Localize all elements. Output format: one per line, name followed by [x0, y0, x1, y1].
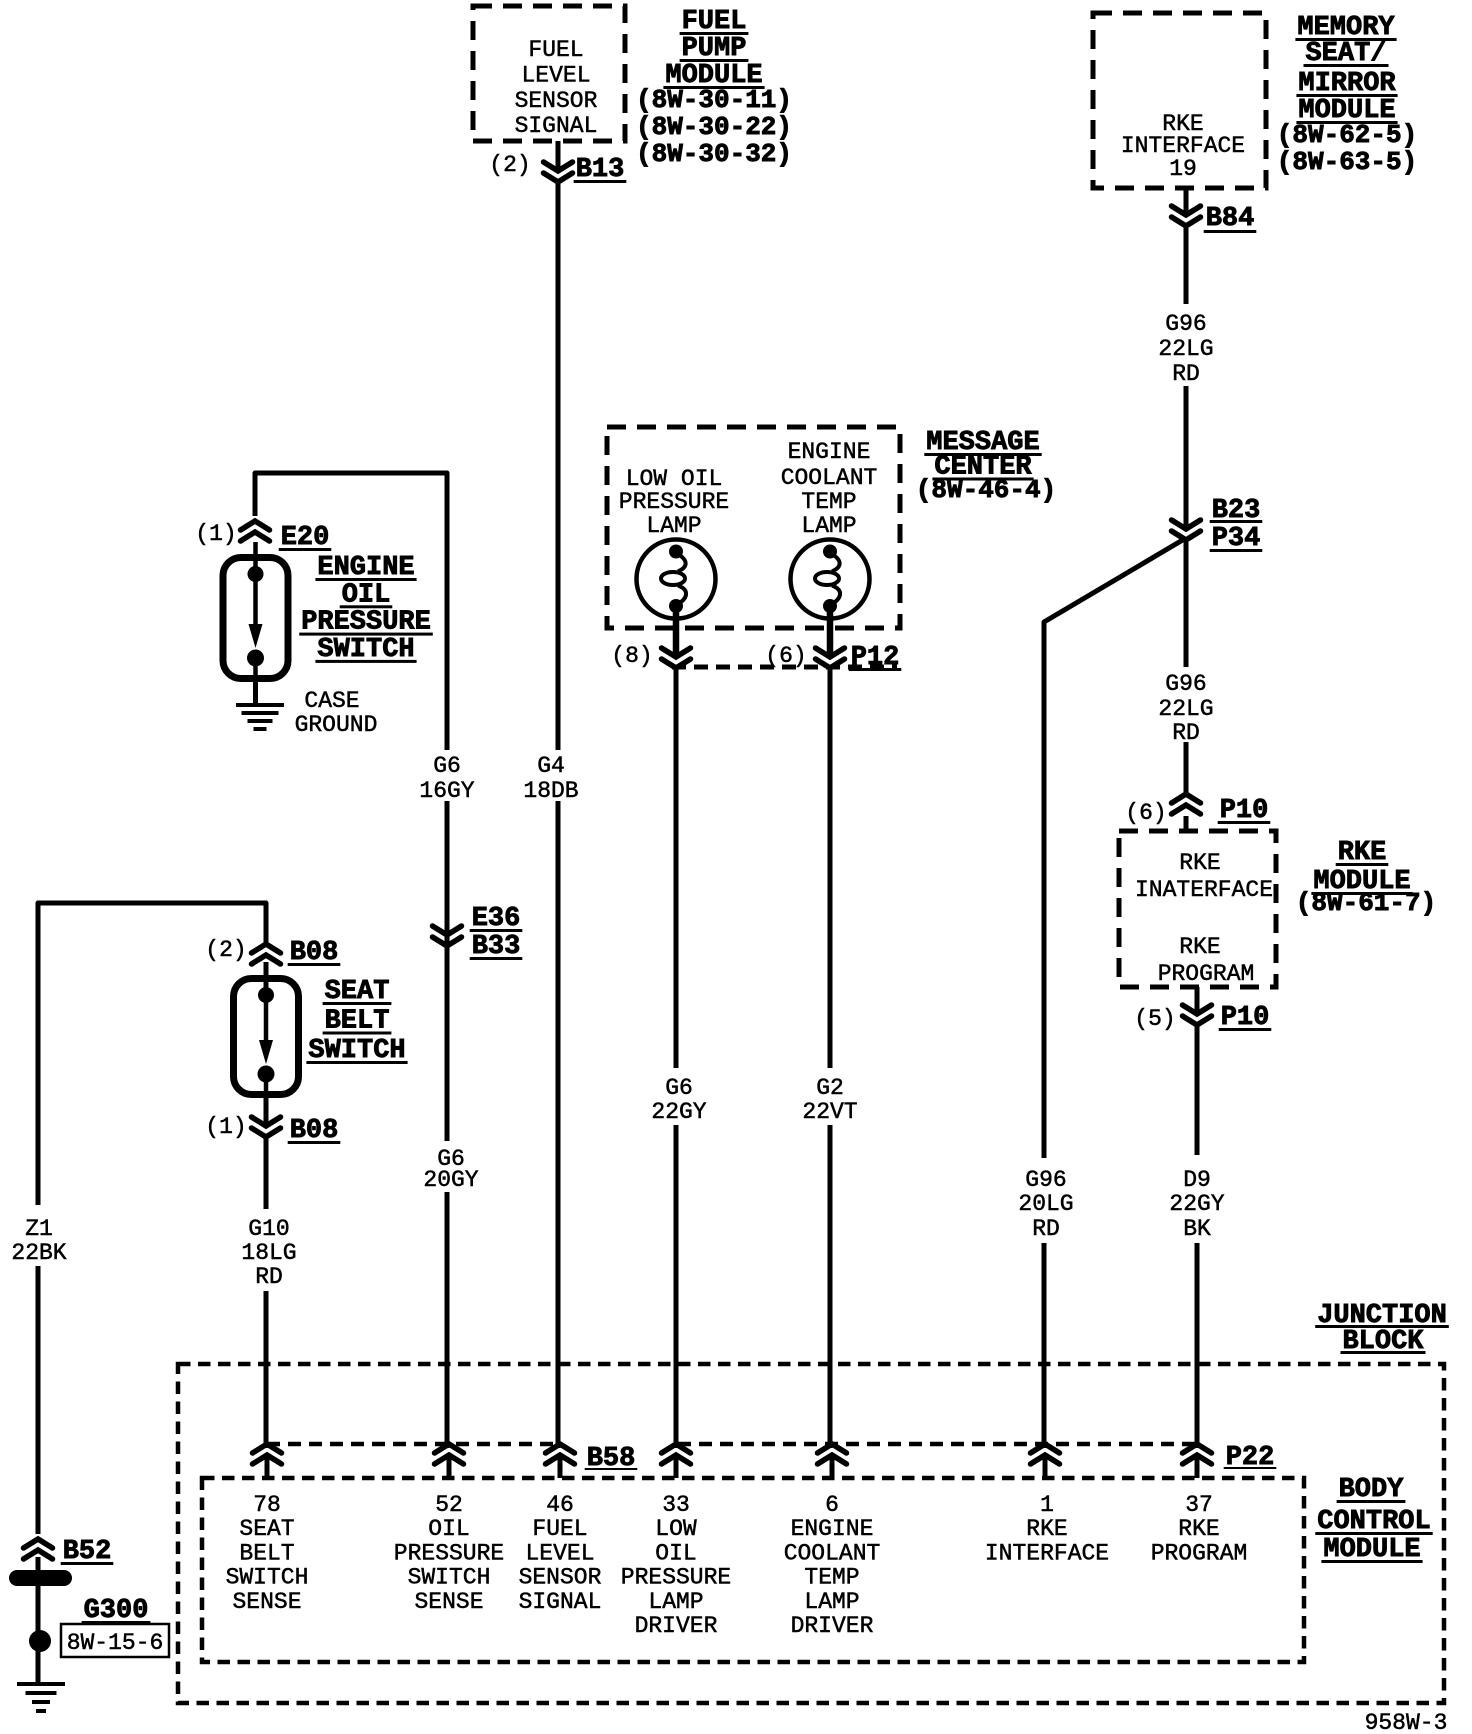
wire G4 18DB [556, 182, 561, 1448]
svg-text:RD: RD [255, 1264, 283, 1290]
svg-text:(2): (2) [489, 152, 530, 178]
label G4 18DB [523, 753, 578, 804]
wire G10 lower [264, 1291, 269, 1448]
svg-text:G6: G6 [665, 1075, 693, 1101]
label pin 33 LOW OIL PRESSURE LAMP DRIVER [621, 1492, 731, 1639]
svg-text:LAMP: LAMP [648, 1589, 703, 1615]
svg-text:22BK: 22BK [11, 1240, 66, 1266]
svg-text:SWITCH: SWITCH [226, 1565, 309, 1591]
label MESSAGE CENTER [916, 428, 1056, 505]
junction connector pin 6 [818, 1444, 847, 1478]
junction connector pin 37 [1183, 1444, 1212, 1478]
label G6 16GY [419, 753, 474, 804]
label RKE MODULE (8W-61-7) [1296, 838, 1436, 918]
connector B84 [1172, 188, 1257, 234]
label G96 22LG RD upper [1158, 311, 1213, 387]
svg-text:COOLANT: COOLANT [781, 465, 878, 491]
svg-text:ENGINE: ENGINE [788, 439, 871, 465]
svg-text:LAMP: LAMP [804, 1589, 859, 1615]
label FUEL PUMP MODULE [636, 7, 792, 169]
wire G96 22LG RD lower [1184, 538, 1189, 794]
svg-text:RD: RD [1032, 1216, 1060, 1242]
junction connector pin 78 [253, 1444, 282, 1478]
svg-text:G2: G2 [816, 1075, 844, 1101]
svg-text:SENSOR: SENSOR [515, 88, 598, 114]
label D9 22GY BK [1169, 1167, 1224, 1242]
connector B13 [489, 141, 626, 185]
svg-text:DRIVER: DRIVER [635, 1613, 718, 1639]
svg-text:BK: BK [1183, 1216, 1211, 1242]
svg-text:SENSE: SENSE [414, 1589, 483, 1615]
svg-text:CASE: CASE [304, 688, 359, 714]
svg-text:16GY: 16GY [419, 778, 474, 804]
svg-text:COOLANT: COOLANT [784, 1540, 881, 1566]
svg-text:D9: D9 [1183, 1167, 1211, 1193]
svg-text:FUEL: FUEL [532, 1516, 587, 1542]
svg-text:RKE: RKE [1179, 934, 1220, 960]
svg-text:78: 78 [253, 1492, 281, 1518]
svg-text:TEMP: TEMP [804, 1565, 859, 1591]
svg-text:OIL: OIL [428, 1516, 469, 1542]
svg-text:(1): (1) [205, 1114, 246, 1140]
svg-text:(5): (5) [1134, 1006, 1175, 1032]
svg-text:G96: G96 [1165, 311, 1206, 337]
label ENGINE OIL PRESSURE SWITCH [299, 553, 433, 665]
lamp socket dashed line [672, 665, 897, 670]
body control module box [202, 1478, 1304, 1662]
svg-text:G96: G96 [1025, 1167, 1066, 1193]
connector (6) P10 [1125, 794, 1270, 826]
label G10 18LG RD [241, 1216, 296, 1290]
connector (5) P10 [1134, 987, 1271, 1033]
label G2 22VT [802, 1075, 857, 1125]
wire G96 22LG RD upper [1184, 226, 1189, 529]
svg-text:LEVEL: LEVEL [525, 1540, 594, 1566]
label G96 22LG RD lower [1158, 671, 1213, 746]
label JUNCTION BLOCK [1315, 1301, 1449, 1357]
svg-text:SWITCH: SWITCH [408, 1565, 491, 1591]
svg-text:SIGNAL: SIGNAL [519, 1589, 602, 1615]
svg-text:19: 19 [1169, 156, 1197, 182]
svg-text:RD: RD [1172, 720, 1200, 746]
connector B23 P34 [1172, 496, 1263, 554]
svg-text:(8W-61-7): (8W-61-7) [1296, 888, 1436, 918]
label RKE INATERFACE / RKE PROGRAM [1135, 850, 1273, 987]
svg-text:1: 1 [1040, 1492, 1054, 1518]
label pin 46 FUEL LEVEL SENSOR SIGNAL [519, 1492, 602, 1615]
engine coolant temp lamp [791, 540, 870, 619]
connector B08 lower [205, 1098, 340, 1146]
svg-text:RKE: RKE [1179, 850, 1220, 876]
fuel level sensor signal box [473, 6, 625, 141]
wire Z1 horizontal [38, 903, 266, 1205]
svg-text:BELT: BELT [239, 1540, 294, 1566]
junction connector pin 46 [546, 1444, 575, 1478]
label pin 1 RKE INTERFACE [985, 1492, 1109, 1566]
label pin 37 RKE PROGRAM [1151, 1492, 1248, 1566]
svg-text:B84: B84 [1206, 204, 1255, 234]
wire G6 mid [445, 801, 450, 1141]
svg-text:SIGNAL: SIGNAL [515, 113, 598, 139]
wire into RKE module [1184, 816, 1189, 831]
svg-text:(8W-46-4): (8W-46-4) [916, 475, 1056, 505]
message center box [607, 427, 900, 628]
wire D9 22GY BK [1195, 1025, 1200, 1448]
svg-text:37: 37 [1185, 1492, 1213, 1518]
drawing number 958W-3 [1365, 1710, 1448, 1734]
svg-text:PRESSURE: PRESSURE [394, 1540, 504, 1566]
label P22 [1224, 1443, 1277, 1473]
svg-text:20LG: 20LG [1018, 1191, 1073, 1217]
svg-text:8W-15-6: 8W-15-6 [67, 1630, 164, 1656]
svg-text:52: 52 [435, 1492, 463, 1518]
wire Z1 lower [36, 1266, 41, 1534]
svg-text:(8W-62-5): (8W-62-5) [1277, 120, 1417, 150]
wire G10 upper [264, 1137, 269, 1209]
svg-text:(8W-30-32): (8W-30-32) [636, 139, 792, 169]
svg-text:22GY: 22GY [651, 1099, 706, 1125]
svg-text:33: 33 [662, 1492, 690, 1518]
label Z1 22BK [11, 1216, 66, 1266]
svg-text:RKE: RKE [1178, 1516, 1219, 1542]
svg-text:PROGRAM: PROGRAM [1158, 961, 1255, 987]
case ground [236, 705, 284, 729]
svg-text:LOW: LOW [655, 1516, 697, 1542]
connector B08 upper [205, 937, 340, 968]
svg-text:RKE: RKE [1026, 1516, 1067, 1542]
label BODY CONTROL MODULE [1315, 1475, 1432, 1565]
wire E20 to G6 corner [255, 473, 447, 750]
svg-text:ENGINE: ENGINE [791, 1516, 874, 1542]
connector (8) [611, 643, 690, 669]
svg-text:G96: G96 [1165, 671, 1206, 697]
svg-text:(6): (6) [1125, 800, 1166, 826]
svg-text:(6): (6) [765, 643, 806, 669]
svg-text:G10: G10 [248, 1216, 289, 1242]
label G6 20GY [423, 1146, 478, 1193]
svg-text:22VT: 22VT [802, 1099, 857, 1125]
RKE interface box (memory seat/mirror module) [1093, 13, 1266, 188]
svg-text:DRIVER: DRIVER [791, 1613, 874, 1639]
svg-text:LEVEL: LEVEL [521, 62, 590, 88]
svg-text:958W-3: 958W-3 [1365, 1710, 1448, 1734]
svg-text:Z1: Z1 [25, 1216, 53, 1242]
svg-text:22LG: 22LG [1158, 336, 1213, 362]
ground G300 symbol [17, 1684, 65, 1711]
junction connector row dashed line [267, 1442, 1197, 1447]
label CASE GROUND [295, 688, 378, 738]
svg-text:6: 6 [825, 1492, 839, 1518]
wire to G300 [36, 1586, 41, 1684]
wire pin1 lower [1042, 1243, 1047, 1448]
splice grommet [9, 1570, 72, 1586]
label pin 78 SEAT BELT SWITCH SENSE [226, 1492, 309, 1615]
svg-text:SEAT: SEAT [239, 1516, 294, 1542]
svg-text:OIL: OIL [655, 1540, 696, 1566]
svg-text:INATERFACE: INATERFACE [1135, 877, 1273, 903]
wire G6 22GY [674, 668, 679, 1448]
wire lamp2 to connector [827, 611, 834, 657]
svg-text:18LG: 18LG [241, 1240, 296, 1266]
label pin 6 ENGINE COOLANT TEMP LAMP DRIVER [784, 1492, 881, 1639]
junction connector pin 1 [1031, 1444, 1060, 1478]
label LOW OIL PRESSURE LAMP [619, 466, 729, 539]
wire into seat belt switch [264, 962, 269, 990]
connector B52 [24, 1537, 114, 1570]
svg-text:(8W-30-22): (8W-30-22) [636, 112, 792, 142]
seat belt switch [234, 963, 299, 1100]
svg-text:LAMP: LAMP [646, 513, 701, 539]
junction block box [178, 1364, 1444, 1703]
svg-text:PRESSURE: PRESSURE [619, 489, 729, 515]
connector (6) P12 [765, 643, 901, 673]
svg-text:18DB: 18DB [523, 778, 578, 804]
junction connector pin 33 [662, 1444, 691, 1478]
label B58 [585, 1444, 638, 1474]
connector E20 [195, 521, 331, 553]
svg-text:(1): (1) [195, 521, 236, 547]
svg-text:20GY: 20GY [423, 1167, 478, 1193]
engine oil pressure switch [223, 542, 288, 684]
svg-text:(8): (8) [611, 643, 652, 669]
svg-text:GROUND: GROUND [295, 712, 378, 738]
wire G6 low [445, 1192, 450, 1448]
svg-text:(2): (2) [205, 937, 246, 963]
label pin 52 OIL PRESSURE SWITCH SENSE [394, 1492, 504, 1615]
svg-text:G6: G6 [433, 753, 461, 779]
label G96 20LG RD [1018, 1167, 1073, 1242]
case ground wire [253, 682, 258, 703]
wire lamp1 to connector [673, 611, 680, 657]
svg-text:LAMP: LAMP [801, 513, 856, 539]
G300 reference box [61, 1624, 169, 1657]
label ENGINE COOLANT TEMP LAMP [781, 439, 878, 539]
svg-text:(8W-63-5): (8W-63-5) [1277, 147, 1417, 177]
svg-text:PRESSURE: PRESSURE [621, 1565, 731, 1591]
label G6 22GY [651, 1075, 706, 1125]
svg-text:46: 46 [546, 1492, 574, 1518]
connector E36 B33 [433, 904, 523, 962]
low oil pressure lamp [637, 540, 716, 619]
svg-text:INTERFACE: INTERFACE [985, 1540, 1109, 1566]
svg-text:G4: G4 [537, 753, 565, 779]
label SEAT BELT SWITCH [306, 977, 407, 1066]
svg-text:TEMP: TEMP [801, 489, 856, 515]
label MEMORY SEAT/ MIRROR MODULE [1277, 13, 1417, 177]
svg-text:SENSE: SENSE [232, 1589, 301, 1615]
svg-text:22GY: 22GY [1169, 1191, 1224, 1217]
label G300 [82, 1596, 151, 1626]
RKE module box [1119, 831, 1276, 987]
svg-text:PROGRAM: PROGRAM [1151, 1540, 1248, 1566]
svg-text:RD: RD [1172, 361, 1200, 387]
svg-text:SENSOR: SENSOR [519, 1565, 602, 1591]
wire G2 22VT [828, 668, 833, 1448]
junction connector pin 52 [435, 1444, 464, 1478]
label fuel level sensor signal [515, 37, 598, 139]
svg-text:FUEL: FUEL [528, 37, 583, 63]
svg-text:(8W-30-11): (8W-30-11) [636, 85, 792, 115]
ground G300 node [29, 1630, 51, 1652]
label RKE INTERFACE 19 [1121, 111, 1245, 182]
svg-text:22LG: 22LG [1158, 696, 1213, 722]
wire diagonal to RKE interface pin [1044, 538, 1186, 1158]
